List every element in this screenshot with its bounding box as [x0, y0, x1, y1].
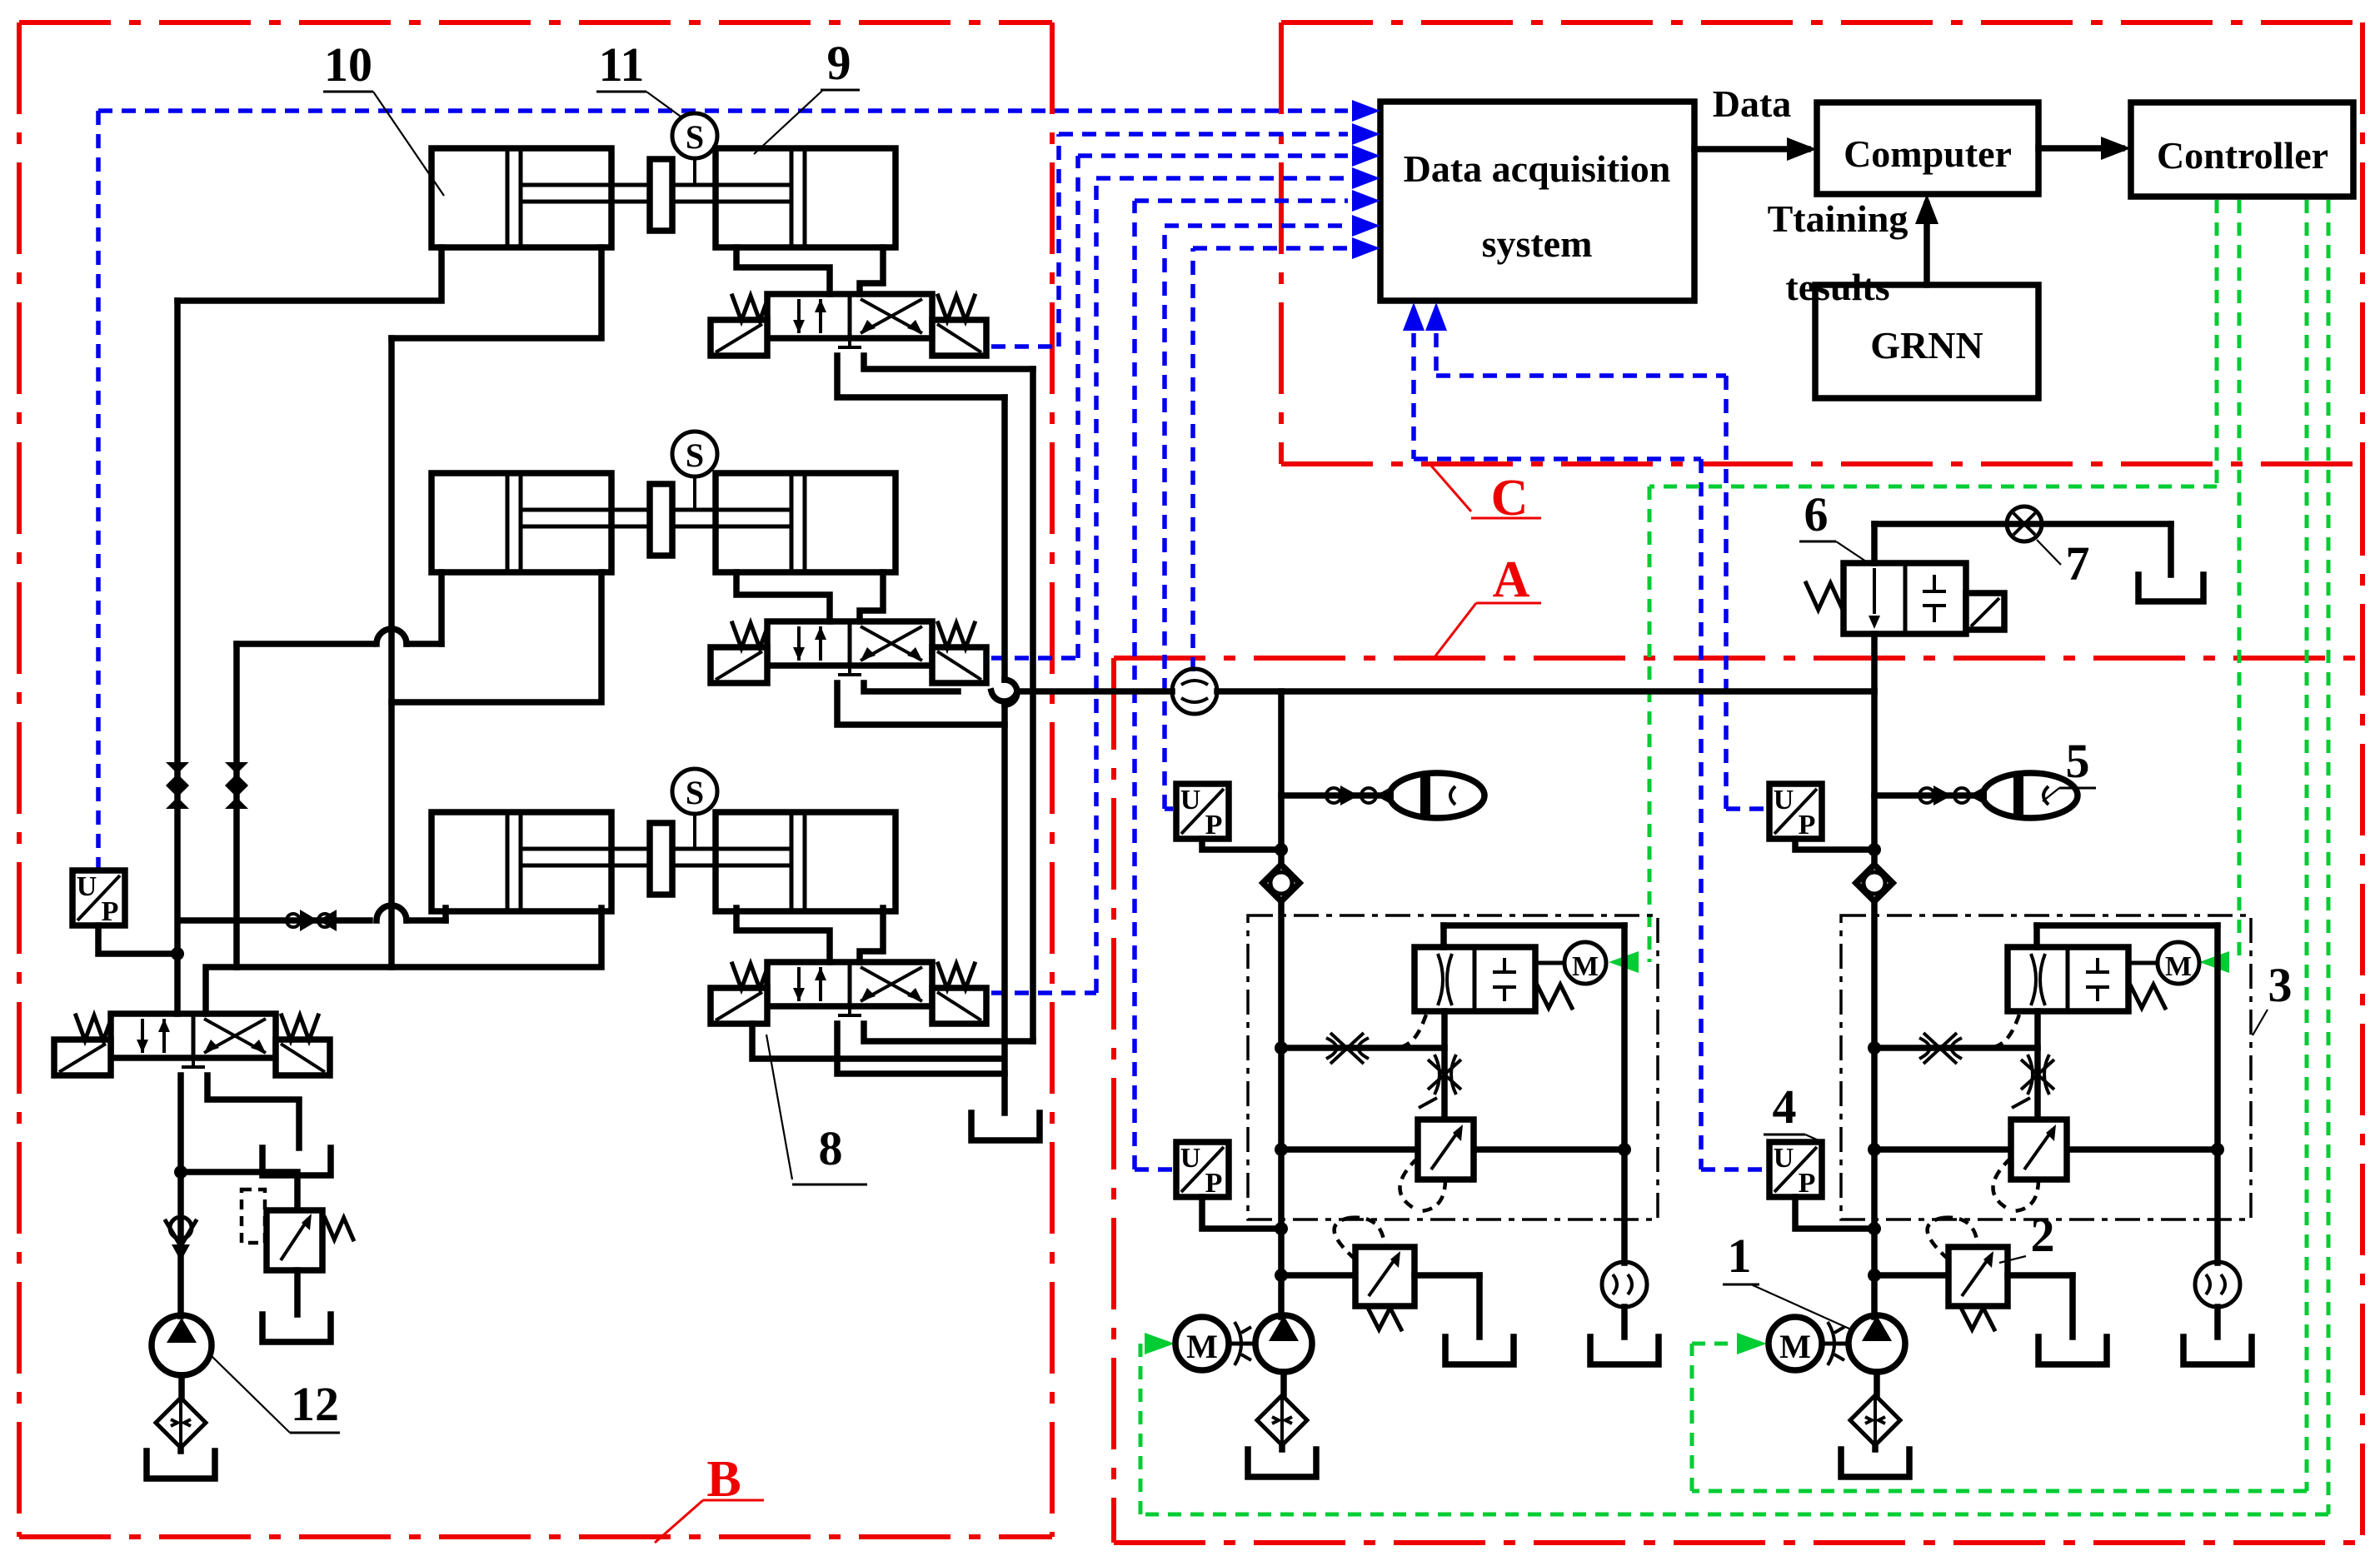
wire prop valve top loop [1444, 925, 1631, 1263]
svg-text:GRNN: GRNN [1870, 324, 1983, 367]
green control line Controller to pump motor M station1 [1140, 200, 2328, 1514]
label C (red) [1431, 466, 1541, 526]
accumulator [1983, 773, 2078, 818]
wire gauge to tank [2214, 1307, 2221, 1337]
pressure gauge right of station [1602, 1262, 1647, 1307]
directional valve V3 (under bottom cylinder pair, item 8) [711, 962, 986, 1024]
tank under right gauge [1590, 1337, 1659, 1364]
tank under valve V3 [971, 1113, 1040, 1140]
motor-pump coupling [1822, 1322, 1849, 1365]
motor-pump coupling [1229, 1322, 1256, 1365]
vertical throttle with arrow to relief pilot [1419, 1011, 1461, 1120]
wire valve V1 port B to long line x1240 [864, 356, 1033, 369]
wire cyl1 right cap port to valve V1 [860, 247, 883, 294]
filter of pump 12 [156, 1398, 206, 1448]
blue signal upper U/P station2 to DAQ bottom arrow 2 [1425, 302, 1766, 809]
tank under right gauge [2183, 1337, 2252, 1364]
tank under lower relief [2038, 1337, 2107, 1364]
wire upper U/P to riser [1202, 839, 1281, 850]
svg-text:system: system [1482, 222, 1593, 265]
pump 12 [152, 1315, 212, 1375]
svg-text:1: 1 [1728, 1229, 1752, 1283]
station dashed enclosure box [1841, 915, 2251, 1219]
cylinder pair middle with speed sensor [432, 431, 896, 572]
wire filter to tank [1872, 1445, 1879, 1449]
region box A (red dash-dot) [1114, 464, 2363, 1543]
wire cyl1 rod port to V-line3 [392, 247, 601, 338]
label 8 with leader [766, 1035, 867, 1184]
pump station 1 (left) [1175, 691, 1659, 1477]
wire pump to filter [1874, 1372, 1880, 1396]
wire filter to tank [1279, 1445, 1285, 1449]
svg-text:P: P [1799, 1168, 1816, 1199]
svg-text:U: U [1774, 785, 1794, 815]
solenoid valve 6 (2/2) [1806, 563, 2004, 634]
svg-text:M: M [1186, 1328, 1218, 1365]
wire valve6 bottom to main line [1871, 634, 1878, 691]
cylinder pair bottom with speed sensor [432, 769, 896, 911]
pump motor M [1175, 1317, 1229, 1370]
wire cyl2 rod port to V-line3 junction [392, 572, 601, 702]
throttle branch horizontal [1874, 1033, 2038, 1064]
svg-text:P: P [1799, 810, 1816, 840]
wire valve V2 port B to main line [864, 683, 958, 691]
label 7 with leader [2037, 536, 2090, 591]
wire U/P left to V-line1 junction [98, 925, 184, 960]
long vertical line x1240 [1030, 369, 1036, 1041]
wire lower U/P to riser [1795, 1197, 1874, 1229]
label B (red) [655, 1451, 764, 1543]
wire VL port B to tank [207, 1075, 299, 1148]
svg-text:8: 8 [819, 1121, 843, 1175]
label 12 with leader [212, 1356, 340, 1433]
svg-text:M: M [2165, 951, 2192, 982]
U/P transducer left (region B) [72, 870, 125, 925]
svg-text:M: M [1572, 951, 1599, 982]
green control line Controller to proportional valve motor M station1 [1609, 200, 2217, 973]
wire cyl1 cap port to V-line1 [177, 247, 442, 301]
station filter [1257, 1395, 1307, 1445]
wire Computer to Controller with arrow [2038, 137, 2131, 160]
pilot dashed line of proportional valve [1973, 1015, 2019, 1049]
svg-text:S: S [686, 118, 704, 156]
wire valve V2 port A to return line x1206 [837, 683, 1005, 725]
pilot dashed line of proportional valve [1380, 1015, 1426, 1049]
wire DAQ to Computer with arrow [1694, 137, 1817, 161]
upper U/P pressure transducer [1176, 784, 1229, 839]
junction dot VL line [174, 1165, 187, 1179]
hydraulic pump [1849, 1315, 1905, 1372]
blue signal bus from region B top to DAQ arrow 1 [98, 100, 1380, 869]
shutoff valve on V-line2 [225, 762, 248, 785]
tank after gauge 7 [2138, 575, 2203, 601]
accumulator branch with shutoff [1281, 785, 1394, 805]
wire relief branch [181, 1172, 297, 1210]
svg-text:U: U [1180, 785, 1201, 815]
label 10 with leader [323, 37, 444, 196]
station tank [1841, 1449, 1909, 1477]
label 2 with leader [1999, 1208, 2055, 1263]
shutoff valve on cyl3 cap line [300, 910, 318, 931]
svg-text:5: 5 [2066, 734, 2090, 788]
svg-text:S: S [686, 774, 704, 811]
proportional relief pilot valve with motor M [1415, 942, 1606, 1011]
wire relief left to tank [294, 1270, 301, 1314]
blue signal valve V1 to DAQ arrow 2 [991, 123, 1380, 347]
directional valve V2 (under middle cylinder pair) [711, 621, 986, 683]
label 1 with leader [1723, 1229, 1851, 1329]
long vertical line x1206 with jump over main line [1005, 397, 1017, 1113]
pump station riser x=1538 [1278, 691, 1285, 1317]
green control line Controller to pump motor M station2 [1692, 200, 2307, 1491]
svg-text:Data: Data [1713, 82, 1792, 125]
label 11 with leader [596, 37, 683, 118]
check valve on riser [1263, 865, 1300, 901]
pump station 2 (right, items 1-4) [1769, 691, 2252, 1477]
svg-text:P: P [102, 896, 119, 927]
wire pump to filter [178, 1375, 185, 1399]
wire gauge to tank [1621, 1307, 1628, 1337]
GRNN box [1815, 285, 2038, 398]
wire valve V1 port A to long line x1206 [837, 356, 1005, 397]
lower U/P pressure transducer (item 4) [1769, 1142, 1822, 1197]
relief valve main stage [1281, 1120, 1624, 1211]
Data acquisition system box [1380, 102, 1694, 301]
wire lower U/P to riser [1202, 1197, 1281, 1229]
relief valve main stage [1874, 1120, 2218, 1211]
wire cyl3 rod port line [237, 908, 601, 967]
label Ttaining tesults [1768, 197, 1908, 308]
lower relief valve [1281, 1218, 1479, 1337]
hydraulic pump [1255, 1315, 1312, 1372]
wire cyl3 right rod port to valve V3 [736, 908, 830, 962]
wire upper lines to cyl3 cap port [180, 905, 446, 920]
blue signal lower U/P station1 to DAQ arrow 5 [1135, 190, 1380, 1169]
junction dots on riser [1868, 843, 1881, 1282]
wire pump to filter [1280, 1372, 1287, 1396]
pressure gauge right of station [2195, 1262, 2240, 1307]
svg-text:P: P [1205, 1168, 1223, 1199]
relief valve left (region B) [242, 1189, 353, 1270]
svg-text:6: 6 [1804, 487, 1829, 541]
wire valve6 top loop to tank via gauge 7 [1874, 524, 2171, 575]
svg-text:Data acquisition: Data acquisition [1404, 147, 1671, 190]
svg-text:Ttaining: Ttaining [1768, 197, 1908, 240]
svg-text:Controller: Controller [2157, 134, 2328, 177]
tank under left relief [262, 1314, 331, 1342]
lower U/P pressure transducer [1176, 1142, 1229, 1197]
label 5 with leader [2043, 734, 2096, 801]
wire GRNN to Computer with arrow [1915, 194, 1938, 285]
svg-text:3: 3 [2268, 958, 2293, 1012]
tank under filter 12 [147, 1451, 215, 1479]
svg-text:S: S [686, 436, 704, 474]
region box C (red dash-dot) [1281, 22, 2363, 464]
blue signal valve V2 to DAQ arrow 3 [991, 145, 1380, 658]
wire VL bottom port A down [177, 1075, 184, 1316]
svg-text:U: U [77, 871, 97, 902]
region box B (red dash-dot) [19, 22, 1052, 1537]
main pressure line to region A with jump [991, 691, 1874, 701]
cylinder pair 10/9 (top) with speed sensor 11 [432, 113, 896, 247]
svg-text:Computer: Computer [1844, 132, 2012, 175]
wire V-line2 to cyl2 cap port [237, 572, 442, 644]
pump station riser x=2250 [1871, 691, 1878, 1317]
directional valve V1 (under top cylinder pair) [711, 294, 986, 356]
svg-text:7: 7 [2066, 536, 2090, 591]
wire cyl3 right cap port to valve V3 [860, 908, 883, 962]
pump motor M [1769, 1317, 1822, 1370]
label 3 with leader [2253, 958, 2293, 1035]
directional valve VL (left supply valve) [54, 1014, 330, 1075]
wire cyl2 right rod port to valve V2 [736, 572, 830, 621]
wire upper U/P to riser [1795, 839, 1874, 850]
wire cyl1 right rod port to valve V1 [736, 247, 830, 294]
svg-text:P: P [1205, 810, 1223, 840]
station tank [1248, 1449, 1316, 1477]
wire valve V3 port A to x1206 line [837, 1024, 1005, 1074]
station dashed enclosure box [1248, 915, 1658, 1219]
Computer box [1817, 102, 2038, 194]
wire V-line1 vertical (left supply line) [174, 301, 181, 1014]
svg-text:2: 2 [2031, 1208, 2055, 1262]
label 9 with leader [754, 36, 860, 154]
wire prop valve top loop [2037, 925, 2224, 1263]
wire VL top jog port [206, 967, 237, 1014]
accumulator 5 [1390, 773, 1484, 818]
svg-text:U: U [1774, 1143, 1794, 1174]
svg-text:10: 10 [324, 37, 372, 92]
wire valve V3 port B to x1240 line [864, 1024, 1033, 1041]
check valve on riser [1856, 865, 1893, 901]
junction dots on riser [1275, 843, 1288, 1282]
check valve on pump line [166, 1221, 196, 1246]
svg-text:11: 11 [599, 37, 645, 92]
upper U/P pressure transducer [1769, 784, 1822, 839]
station filter [1850, 1395, 1900, 1445]
throttle branch horizontal [1281, 1033, 1444, 1064]
Controller box [2131, 102, 2353, 197]
label 4 with leader [1764, 1080, 1819, 1140]
label 6 with leader [1799, 487, 1866, 561]
vertical throttle with arrow to relief pilot [2012, 1011, 2054, 1120]
wire cyl2 right cap port to valve V2 [860, 572, 883, 621]
wire V-line3 vertical [388, 338, 395, 967]
label A (red) [1434, 551, 1541, 657]
svg-text:tesults: tesults [1785, 266, 1889, 308]
tank under valve VL [262, 1148, 331, 1175]
svg-text:9: 9 [827, 36, 851, 90]
blue signal valve V3 to DAQ arrow 4 [991, 167, 1380, 993]
wire V-line2 vertical [233, 644, 240, 967]
svg-text:U: U [1180, 1143, 1201, 1174]
shutoff valve on V-line1 [166, 762, 189, 785]
svg-text:A: A [1493, 551, 1530, 608]
svg-text:M: M [1779, 1328, 1811, 1365]
tank under lower relief [1445, 1337, 1514, 1364]
flow meter on main line [1172, 669, 1217, 714]
blue signal lower U/P station2 to DAQ bottom arrow 1 [1403, 302, 1766, 1169]
blue signal upper U/P station1 to DAQ arrow 6 [1165, 215, 1380, 809]
wire valve V3 drain to tank [752, 1024, 1003, 1059]
svg-text:12: 12 [291, 1377, 339, 1431]
svg-text:4: 4 [1773, 1080, 1797, 1134]
blue signal flow meter to DAQ arrow 7 [1193, 237, 1380, 671]
accumulator branch with shutoff [1874, 785, 1987, 805]
green control line Controller to proportional valve motor M station2 [2199, 200, 2239, 973]
lower relief valve (item 2) [1874, 1218, 2073, 1337]
wire filter to tank [177, 1448, 184, 1451]
proportional relief pilot valve with motor M [2008, 942, 2199, 1011]
gauge 7 crossed circle [2007, 506, 2042, 541]
